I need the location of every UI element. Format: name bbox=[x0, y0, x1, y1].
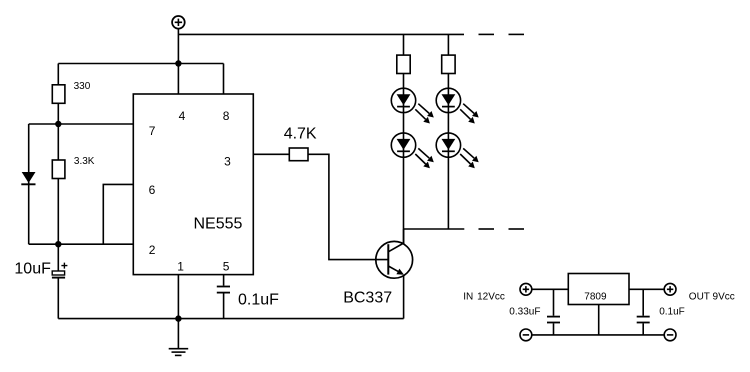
svg-text:IN: IN bbox=[463, 292, 473, 303]
svg-text:1: 1 bbox=[177, 260, 184, 274]
svg-text:5: 5 bbox=[223, 260, 230, 274]
svg-text:0.1uF: 0.1uF bbox=[659, 306, 685, 317]
svg-text:6: 6 bbox=[149, 183, 156, 197]
svg-text:0.1uF: 0.1uF bbox=[238, 291, 279, 308]
svg-text:BC337: BC337 bbox=[343, 290, 392, 307]
svg-text:7: 7 bbox=[149, 124, 156, 138]
svg-text:4.7K: 4.7K bbox=[284, 126, 317, 143]
svg-text:8: 8 bbox=[223, 109, 230, 123]
svg-text:2: 2 bbox=[149, 243, 156, 257]
svg-text:3.3K: 3.3K bbox=[74, 156, 95, 167]
svg-text:330: 330 bbox=[74, 81, 91, 92]
svg-text:10uF: 10uF bbox=[14, 260, 51, 277]
svg-text:12Vcc: 12Vcc bbox=[477, 292, 505, 303]
svg-text:0.33uF: 0.33uF bbox=[509, 306, 540, 317]
svg-text:7809: 7809 bbox=[584, 292, 607, 303]
svg-text:OUT 9Vcc: OUT 9Vcc bbox=[689, 292, 735, 303]
svg-text:3: 3 bbox=[224, 155, 231, 169]
svg-text:NE555: NE555 bbox=[194, 216, 243, 233]
svg-text:4: 4 bbox=[179, 109, 186, 123]
